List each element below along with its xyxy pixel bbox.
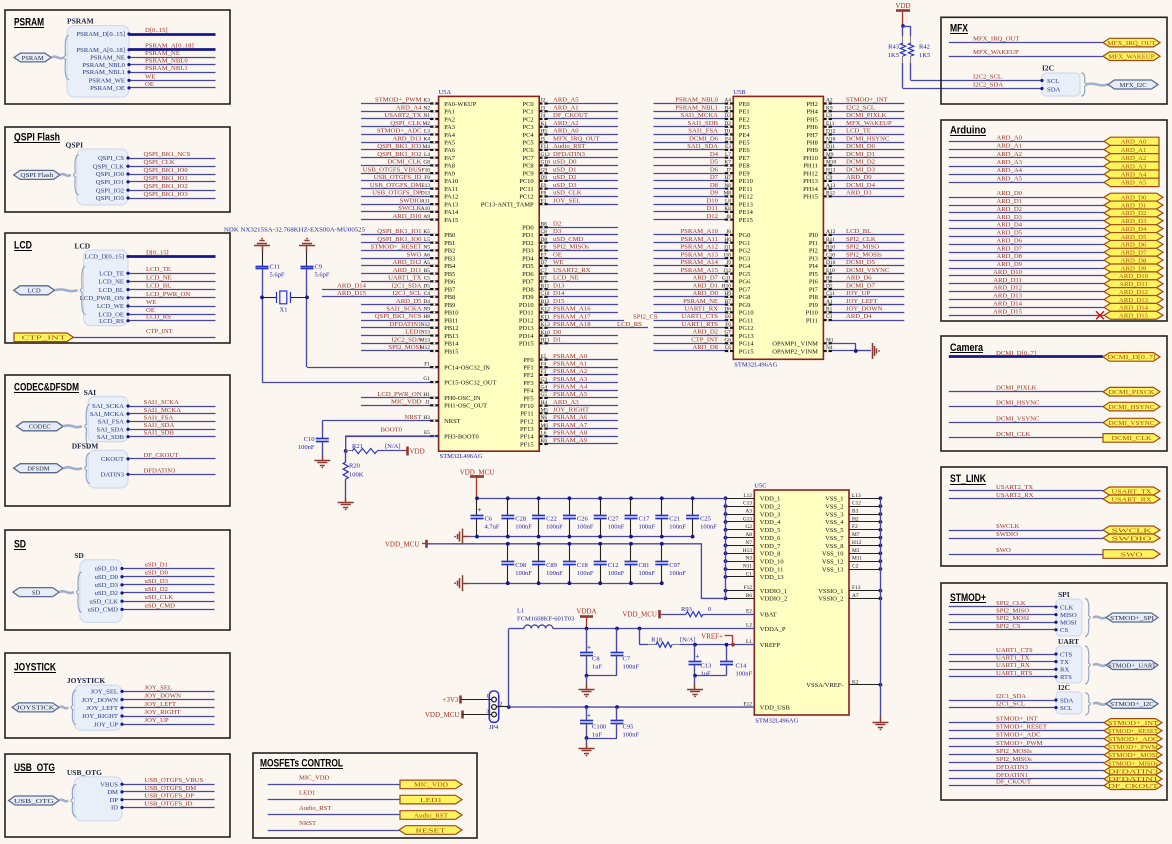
svg-text:PA1: PA1 <box>444 109 455 116</box>
svg-text:JOY_DOWN: JOY_DOWN <box>145 693 182 700</box>
ground below C10 <box>322 455 324 461</box>
U5A pin PC4 (H5) net ARD_A0 <box>539 134 618 136</box>
svg-text:ARD_D7: ARD_D7 <box>996 245 1022 252</box>
svg-text:VDD_7: VDD_7 <box>760 543 781 550</box>
svg-text:ARD_D13: ARD_D13 <box>393 135 423 142</box>
svg-text:SAI_MCKA: SAI_MCKA <box>90 411 124 418</box>
svg-text:E9: E9 <box>541 183 547 189</box>
U5A pin PD7 (B7) net LCD_NE <box>539 281 618 283</box>
svg-text:VSS_4: VSS_4 <box>825 519 844 526</box>
svg-text:I2C2_SDA: I2C2_SDA <box>391 336 421 343</box>
wire USB_OTGFS_DM <box>122 791 215 793</box>
svg-text:PE14: PE14 <box>739 209 754 216</box>
U5B pin PG3 (J10) net PSRAM_A13 <box>654 258 734 260</box>
port ARD_D13 flag <box>1104 296 1163 304</box>
svg-text:VDD_10: VDD_10 <box>760 558 784 565</box>
U5A pin PA0-WKUP (K3) net STMOD+_PWM <box>361 103 439 105</box>
svg-text:QSPI_CLK: QSPI_CLK <box>144 159 175 166</box>
svg-text:PSRAM: PSRAM <box>67 17 94 26</box>
svg-text:uSD_D0: uSD_D0 <box>553 159 577 166</box>
svg-text:B13: B13 <box>541 299 550 305</box>
U5B pin PH8 (N10) net DCMI_HSYNC <box>823 142 904 144</box>
svg-text:LCD_PWR_ON: LCD_PWR_ON <box>377 391 421 398</box>
svg-text:PSRAM_A14: PSRAM_A14 <box>680 259 718 266</box>
U5B pin PE9 (J7) net D6 <box>654 173 734 175</box>
port SWDIO flag <box>1103 534 1160 542</box>
svg-text:PD4: PD4 <box>522 255 534 262</box>
U5A pin PA7 (L4) net QSPI_BK1_IO2 <box>361 157 439 159</box>
port DCMI_HSYNC flag <box>1103 402 1160 411</box>
U5B pin PG7 (H10) net ARD_D1 <box>654 289 734 291</box>
ground above C9 <box>306 246 308 252</box>
ground rail bank2 (sideways) <box>463 583 469 585</box>
svg-text:USB_OTG: USB_OTG <box>14 798 54 805</box>
svg-text:LCD_NE: LCD_NE <box>98 279 124 286</box>
U5B pin PH14 (A13) net DCMI_D4 <box>823 188 904 190</box>
svg-text:J4: J4 <box>541 113 546 119</box>
svg-text:PB1: PB1 <box>444 240 455 247</box>
U5C pin VSS_4 (H2) <box>849 521 880 523</box>
wire OPAMP join <box>855 343 857 351</box>
svg-text:PE6: PE6 <box>739 147 751 154</box>
svg-text:ARD_D11: ARD_D11 <box>393 267 422 274</box>
svg-text:ARD_A5: ARD_A5 <box>553 97 579 104</box>
power port VDD_MCU (mid rail) <box>425 540 428 548</box>
svg-text:DCMI_D1: DCMI_D1 <box>846 151 875 158</box>
svg-text:J7: J7 <box>726 167 731 173</box>
wire DFDATIN1 <box>949 778 1104 780</box>
svg-text:100K: 100K <box>349 472 364 479</box>
U5B pin PH11 (M10) net DCMI_D2 <box>823 165 904 167</box>
wire DFDATIN3 <box>128 474 216 476</box>
wire UART1_CTS <box>949 654 1056 656</box>
svg-text:M1: M1 <box>826 337 834 343</box>
port LED1 flag <box>400 795 462 804</box>
svg-text:MFX: MFX <box>950 23 969 35</box>
svg-text:PG12: PG12 <box>739 325 754 332</box>
svg-text:uSD_CLK: uSD_CLK <box>145 594 174 601</box>
svg-text:N2: N2 <box>423 105 430 111</box>
svg-text:DCMI_D7: DCMI_D7 <box>846 282 876 289</box>
svg-text:D7: D7 <box>710 174 719 181</box>
svg-text:SAI_SDB: SAI_SDB <box>97 434 125 441</box>
U5A pin PB15 (M12) net SPI2_MOSI <box>361 350 439 352</box>
U5A pin PF5 (G5) net PSRAM_A5 <box>539 397 618 399</box>
port MFX_WAKEUP flag <box>1103 52 1160 61</box>
svg-text:PC14-OSC32_IN: PC14-OSC32_IN <box>444 364 490 371</box>
svg-text:ARD_A5: ARD_A5 <box>1121 180 1147 187</box>
U5C pin VDD_13 (C1) <box>726 576 755 578</box>
U5B pin PG14 (G6) net CTP_INT <box>654 343 734 345</box>
wire ARD_D1 <box>949 205 1104 207</box>
wire ARD_D8 <box>949 260 1104 262</box>
svg-text:C14: C14 <box>736 663 748 670</box>
svg-text:J6: J6 <box>726 229 731 235</box>
svg-text:OE: OE <box>553 251 562 258</box>
svg-text:LCD_TE: LCD_TE <box>99 270 124 277</box>
svg-text:N13: N13 <box>421 330 431 336</box>
svg-text:QSPI_BK1_IO2: QSPI_BK1_IO2 <box>144 183 188 190</box>
U5B pin PI0 (A12) net LCD_BL <box>823 234 904 236</box>
capacitor C25 100nF <box>692 498 694 515</box>
svg-text:D11: D11 <box>826 144 835 150</box>
svg-text:QSPI_BK1_NCS: QSPI_BK1_NCS <box>375 313 422 320</box>
svg-text:PH12: PH12 <box>803 170 818 177</box>
svg-text:QSPI_IO3: QSPI_IO3 <box>96 195 125 202</box>
U5B pin PI6 (B9) net ARD_D6 <box>823 281 904 283</box>
svg-text:H7: H7 <box>724 175 731 181</box>
svg-text:ARD_D6: ARD_D6 <box>1121 242 1147 249</box>
U5C pin VDD_5 (G2) <box>726 529 755 531</box>
wire QSPI_BK1_IO3 <box>128 198 216 200</box>
capacitor C21 100nF <box>661 498 663 515</box>
svg-text:ARD_D10: ARD_D10 <box>393 213 423 220</box>
svg-text:DCMI_HSYNC: DCMI_HSYNC <box>1109 404 1156 411</box>
svg-text:SPI2_MISOs: SPI2_MISOs <box>553 244 589 251</box>
svg-text:PB15: PB15 <box>444 348 458 355</box>
svg-text:H13: H13 <box>826 167 836 173</box>
port ARD_D1 flag <box>1104 201 1163 209</box>
svg-text:SPI2_MOSIs: SPI2_MOSIs <box>846 251 882 258</box>
U5B pin PH10 (M9) net DCMI_D1 <box>823 157 904 159</box>
svg-text:ARD_D0: ARD_D0 <box>692 290 718 297</box>
resistor R20 100K <box>345 451 347 462</box>
svg-text:PI7: PI7 <box>809 286 819 293</box>
svg-text:PB0: PB0 <box>444 232 455 239</box>
U5B pin PG0 (J6) net PSRAM_A10 <box>654 234 734 236</box>
IC U5B STM32L496AG (ports E/G/H/I) <box>733 96 823 359</box>
svg-text:K9: K9 <box>826 105 833 111</box>
wire WE <box>128 306 216 308</box>
svg-text:BOOT0: BOOT0 <box>380 427 402 434</box>
svg-text:MFX_WAKEUP: MFX_WAKEUP <box>973 49 1019 56</box>
svg-text:ARD_D8: ARD_D8 <box>996 253 1022 260</box>
svg-text:PB12: PB12 <box>444 325 458 332</box>
svg-text:ARD_D14: ARD_D14 <box>1119 305 1149 312</box>
svg-text:DFDATIN3: DFDATIN3 <box>144 467 177 474</box>
svg-text:DCMI_CLK: DCMI_CLK <box>387 159 421 166</box>
U5A pin PF11 (M5) net JOY_RIGHT <box>539 413 618 415</box>
svg-text:5.6pF: 5.6pF <box>270 272 285 279</box>
svg-text:D14: D14 <box>553 290 565 297</box>
LCD block box <box>5 233 230 343</box>
wire QSPI_BK1_NCS <box>128 158 216 160</box>
svg-text:RX: RX <box>1060 667 1069 674</box>
svg-text:Arduino: Arduino <box>950 125 986 137</box>
wire UART1_TX <box>949 661 1056 663</box>
CODEC&DFSDM block box <box>5 375 230 506</box>
svg-text:SAI1_SCKA: SAI1_SCKA <box>144 399 179 406</box>
svg-text:PG7: PG7 <box>739 286 751 293</box>
wire VDD bus vertical <box>725 498 727 598</box>
svg-text:G1: G1 <box>423 376 430 382</box>
Camera block box <box>941 336 1167 451</box>
svg-text:1uF: 1uF <box>592 732 603 739</box>
svg-text:USB_OTGFS_ID: USB_OTGFS_ID <box>145 801 193 808</box>
svg-text:QSPI Flash: QSPI Flash <box>20 172 54 179</box>
wire GND rail (bank2 bottom) <box>469 583 662 585</box>
svg-text:PSRAM_A8: PSRAM_A8 <box>553 430 588 437</box>
svg-text:100nF: 100nF <box>608 524 625 531</box>
svg-text:PE7: PE7 <box>739 155 751 162</box>
harness SAI <box>88 396 128 441</box>
wire VSS bus vertical <box>880 498 882 717</box>
svg-text:UART1_RTS: UART1_RTS <box>996 670 1033 677</box>
svg-text:ARD_D14: ARD_D14 <box>993 300 1023 307</box>
svg-text:PI6: PI6 <box>809 279 819 286</box>
svg-text:N7: N7 <box>745 540 752 546</box>
svg-text:ARD_D8: ARD_D8 <box>1121 257 1147 264</box>
svg-text:G6: G6 <box>724 337 731 343</box>
port ARD_D2 flag <box>1104 209 1163 217</box>
svg-text:C98: C98 <box>515 562 526 569</box>
wire STMOD+_PWM <box>949 746 1104 748</box>
svg-text:DFDATIN1: DFDATIN1 <box>390 321 422 328</box>
svg-text:uSD_D2: uSD_D2 <box>553 174 576 181</box>
svg-text:PG4: PG4 <box>739 263 751 270</box>
svg-text:+3V3: +3V3 <box>442 696 459 704</box>
wire ARD_D0 <box>949 197 1104 199</box>
svg-text:K2: K2 <box>852 679 859 685</box>
svg-text:QSPI_IO1: QSPI_IO1 <box>96 179 124 186</box>
svg-text:DCMI_D6: DCMI_D6 <box>689 135 719 142</box>
svg-text:SPI2_MOSI: SPI2_MOSI <box>388 344 421 351</box>
svg-text:Audio_RST: Audio_RST <box>414 812 448 819</box>
wire LCD_PWR_ON <box>128 297 216 299</box>
svg-text:JOY_DOWN: JOY_DOWN <box>846 306 883 313</box>
svg-text:LCD_D[0..15]: LCD_D[0..15] <box>85 254 124 261</box>
wire LED1 <box>268 799 400 801</box>
svg-text:ARD_A3: ARD_A3 <box>553 399 579 406</box>
resistor R42 1K5 <box>903 26 911 28</box>
MFX block box <box>941 17 1167 104</box>
svg-text:STMOD+_RESET: STMOD+_RESET <box>371 244 422 251</box>
svg-text:PG0: PG0 <box>739 232 751 239</box>
svg-text:DCMI_VSYNC: DCMI_VSYNC <box>846 267 890 274</box>
wire WE <box>129 80 216 82</box>
svg-text:QSPI_CLK: QSPI_CLK <box>390 120 421 127</box>
svg-text:ARD_A0: ARD_A0 <box>996 134 1022 141</box>
svg-text:VDD_MCU: VDD_MCU <box>385 540 420 548</box>
svg-text:L4: L4 <box>424 152 430 158</box>
svg-text:SPI: SPI <box>1058 590 1070 599</box>
U5C pin VDD_10 (N3) <box>726 561 755 563</box>
svg-text:JOY_LEFT: JOY_LEFT <box>86 705 118 712</box>
U5C pin VSS_10 (M3) <box>849 553 880 555</box>
svg-text:SD: SD <box>14 539 26 551</box>
svg-text:PB7: PB7 <box>444 286 456 293</box>
svg-text:C28: C28 <box>515 516 526 523</box>
svg-text:PC13-ANTI_TAMP: PC13-ANTI_TAMP <box>481 201 534 208</box>
svg-text:PH7: PH7 <box>806 132 818 139</box>
svg-text:MFX_WAKEUP: MFX_WAKEUP <box>1109 54 1155 61</box>
U5C pin VDD_3 (A3) <box>726 514 755 516</box>
port ARD_D7 flag <box>1104 248 1163 256</box>
svg-text:PE0: PE0 <box>739 101 750 108</box>
wire JOY_LEFT <box>122 707 215 709</box>
capacitor C7 100nF <box>615 627 619 631</box>
junction VDDA <box>585 627 589 631</box>
svg-text:NRST: NRST <box>404 414 421 421</box>
svg-text:PSRAM_WE: PSRAM_WE <box>89 78 125 85</box>
svg-text:STMOD+_MOSI: STMOD+_MOSI <box>1108 752 1158 759</box>
svg-text:PD15: PD15 <box>519 341 534 348</box>
svg-text:ARD_A2: ARD_A2 <box>996 151 1022 158</box>
svg-text:PA7: PA7 <box>444 155 456 162</box>
svg-text:B9: B9 <box>826 276 833 282</box>
svg-text:VBUS: VBUS <box>100 781 118 788</box>
svg-text:B11: B11 <box>541 283 550 289</box>
svg-text:PSRAM_A0: PSRAM_A0 <box>553 353 588 360</box>
svg-text:[N/A]: [N/A] <box>385 443 401 450</box>
svg-text:PC0: PC0 <box>522 101 533 108</box>
svg-text:J8: J8 <box>726 214 731 220</box>
U5A pin PB8 (C4) net I2C1_SCL <box>322 296 439 298</box>
svg-text:PSRAM_NE: PSRAM_NE <box>683 298 718 305</box>
svg-text:JOY_SEL: JOY_SEL <box>145 684 173 691</box>
harness PSRAM <box>67 26 129 97</box>
svg-text:CTP_INT: CTP_INT <box>146 328 173 335</box>
svg-text:I2C2_SCL: I2C2_SCL <box>846 104 875 111</box>
U5A pin PD0 (B8) net D2 <box>539 227 618 229</box>
svg-text:WE: WE <box>553 259 563 266</box>
svg-text:N9: N9 <box>423 307 430 313</box>
svg-text:MIC_VDD: MIC_VDD <box>391 399 422 406</box>
U5A pin PB13 (N13) net LED1 <box>361 335 439 337</box>
svg-text:DF_CKOUT: DF_CKOUT <box>144 452 179 459</box>
SD block box <box>5 530 230 630</box>
svg-text:JOY_UP: JOY_UP <box>94 721 118 728</box>
svg-text:C100: C100 <box>592 724 606 731</box>
svg-text:G7: G7 <box>724 330 731 336</box>
svg-text:SWO: SWO <box>996 547 1011 554</box>
capacitor C9 5.6pF <box>301 266 314 268</box>
svg-text:DF_CKOUT: DF_CKOUT <box>1108 783 1158 790</box>
svg-text:UART1_RX: UART1_RX <box>684 306 718 313</box>
U5A pin PA4 (L3) net STMOD+_ADC <box>361 134 439 136</box>
svg-text:A9: A9 <box>423 214 430 220</box>
capacitor C6 4.7uF <box>476 498 478 515</box>
svg-text:J3: J3 <box>541 105 546 111</box>
svg-text:PF12: PF12 <box>520 418 534 425</box>
svg-text:PG15: PG15 <box>739 348 754 355</box>
svg-text:TX: TX <box>1060 659 1069 666</box>
svg-text:DFSDM: DFSDM <box>72 441 99 450</box>
wire ARD_D5 <box>949 236 1104 238</box>
svg-text:M4: M4 <box>423 144 431 150</box>
svg-text:CODEC: CODEC <box>29 424 51 431</box>
U5B pin PI2 (B10) net SPI2_MISO <box>823 250 904 252</box>
capacitor C10 100nF <box>322 421 324 438</box>
svg-text:D2: D2 <box>826 283 833 289</box>
svg-text:DCMI_D4: DCMI_D4 <box>846 182 876 189</box>
port CODEC flag <box>16 422 63 431</box>
svg-text:VDD_4: VDD_4 <box>760 519 781 526</box>
svg-text:PE12: PE12 <box>739 194 753 201</box>
U5C pin VSS_13 (C2) <box>849 569 880 571</box>
svg-text:USB_OTGFS_DP: USB_OTGFS_DP <box>372 190 422 197</box>
svg-text:D5: D5 <box>423 283 430 289</box>
wire ARD_D13 <box>949 299 1104 301</box>
svg-text:L13: L13 <box>852 493 861 499</box>
svg-text:ARD_D1: ARD_D1 <box>996 198 1022 205</box>
svg-text:PD3: PD3 <box>522 248 534 255</box>
JOYSTICK block box <box>5 653 230 738</box>
U5A pin PC15-OSC32_OUT (G1) <box>262 382 439 384</box>
junction crystal-C11 <box>260 296 264 300</box>
wire LCD_BL <box>128 289 216 291</box>
svg-text:PSRAM_A18: PSRAM_A18 <box>553 321 591 328</box>
ground below C13 <box>694 676 696 684</box>
capacitor C98 100nF <box>507 544 509 562</box>
U5A pin PH3-BOOT0 (E5) net BOOT0 <box>346 436 439 438</box>
svg-text:DCMI_CLK: DCMI_CLK <box>1112 435 1152 442</box>
wire ARD_A0 <box>949 141 1104 143</box>
svg-text:H12: H12 <box>852 540 862 546</box>
svg-text:uSD_CLK: uSD_CLK <box>89 598 118 605</box>
svg-text:J2: J2 <box>541 98 546 104</box>
svg-text:MOSI: MOSI <box>1060 620 1077 627</box>
port DCMI_D[0..7] flag <box>1103 353 1160 362</box>
U5A pin PD14 (K10) net D0 <box>539 335 618 337</box>
svg-text:uSD_D1: uSD_D1 <box>145 562 168 569</box>
svg-text:PH2: PH2 <box>806 101 818 108</box>
svg-text:PH5: PH5 <box>806 116 818 123</box>
svg-text:VDDA_P: VDDA_P <box>760 626 786 633</box>
svg-text:DCMI_D[0..7]: DCMI_D[0..7] <box>1108 354 1156 361</box>
U5A pin PA14 (A10) net SWCLK <box>361 211 439 213</box>
port DF_CKOUT flag <box>1104 782 1162 790</box>
U5B pin PI8 (C11) net JOY_UP <box>823 296 904 298</box>
wire Audio_RST <box>268 814 400 816</box>
port PSRAM flag <box>14 53 51 62</box>
port ARD_D14 flag <box>1104 303 1163 311</box>
svg-text:C13: C13 <box>743 501 752 507</box>
svg-text:PI8: PI8 <box>809 294 818 301</box>
U5B pin PH13 (C9) net ARD_D9 <box>823 180 904 182</box>
svg-text:+: + <box>478 506 482 514</box>
harness I2C (STMOD+) <box>1056 692 1082 714</box>
svg-text:uSD_D3: uSD_D3 <box>95 582 119 589</box>
svg-text:ARD_D15: ARD_D15 <box>337 290 367 297</box>
svg-text:PB2: PB2 <box>444 248 455 255</box>
svg-text:G13: G13 <box>743 516 753 522</box>
svg-text:SWO: SWO <box>407 251 422 258</box>
U5A pin PF3 (G3) net PSRAM_A3 <box>539 382 618 384</box>
svg-text:PC2: PC2 <box>522 116 533 123</box>
svg-text:PSRAM_A3: PSRAM_A3 <box>553 376 588 383</box>
svg-text:PB4: PB4 <box>444 263 456 270</box>
svg-text:ARD_D6: ARD_D6 <box>846 275 872 282</box>
wire I2C1_SCL <box>949 707 1056 709</box>
svg-text:SWO: SWO <box>1121 551 1143 558</box>
svg-text:SWCLK: SWCLK <box>996 523 1020 530</box>
svg-text:OPAMP1_VINM: OPAMP1_VINM <box>772 341 818 348</box>
U5A pin PD15 (H11) net D1 <box>539 343 618 345</box>
U5A pin PD13 (K13) net PSRAM_A18 <box>539 327 648 329</box>
U5B pin PE10 (H7) net D7 <box>654 180 734 182</box>
svg-text:100nF: 100nF <box>546 570 563 577</box>
U5B pin PH5 (L9) net DCMI_PIXLK <box>823 118 904 120</box>
svg-text:I2C2_SDA: I2C2_SDA <box>973 82 1003 89</box>
svg-text:100nF: 100nF <box>546 524 563 531</box>
harness DFSDM <box>88 450 128 488</box>
svg-text:SAI1_FSA: SAI1_FSA <box>144 414 174 421</box>
port STMOD+_I2C flag <box>1106 699 1158 708</box>
svg-text:VDD_13: VDD_13 <box>760 574 784 581</box>
svg-text:PA9: PA9 <box>444 170 455 177</box>
U5B pin PE1 (B4) net PSRAM_NBL1 <box>654 111 734 113</box>
